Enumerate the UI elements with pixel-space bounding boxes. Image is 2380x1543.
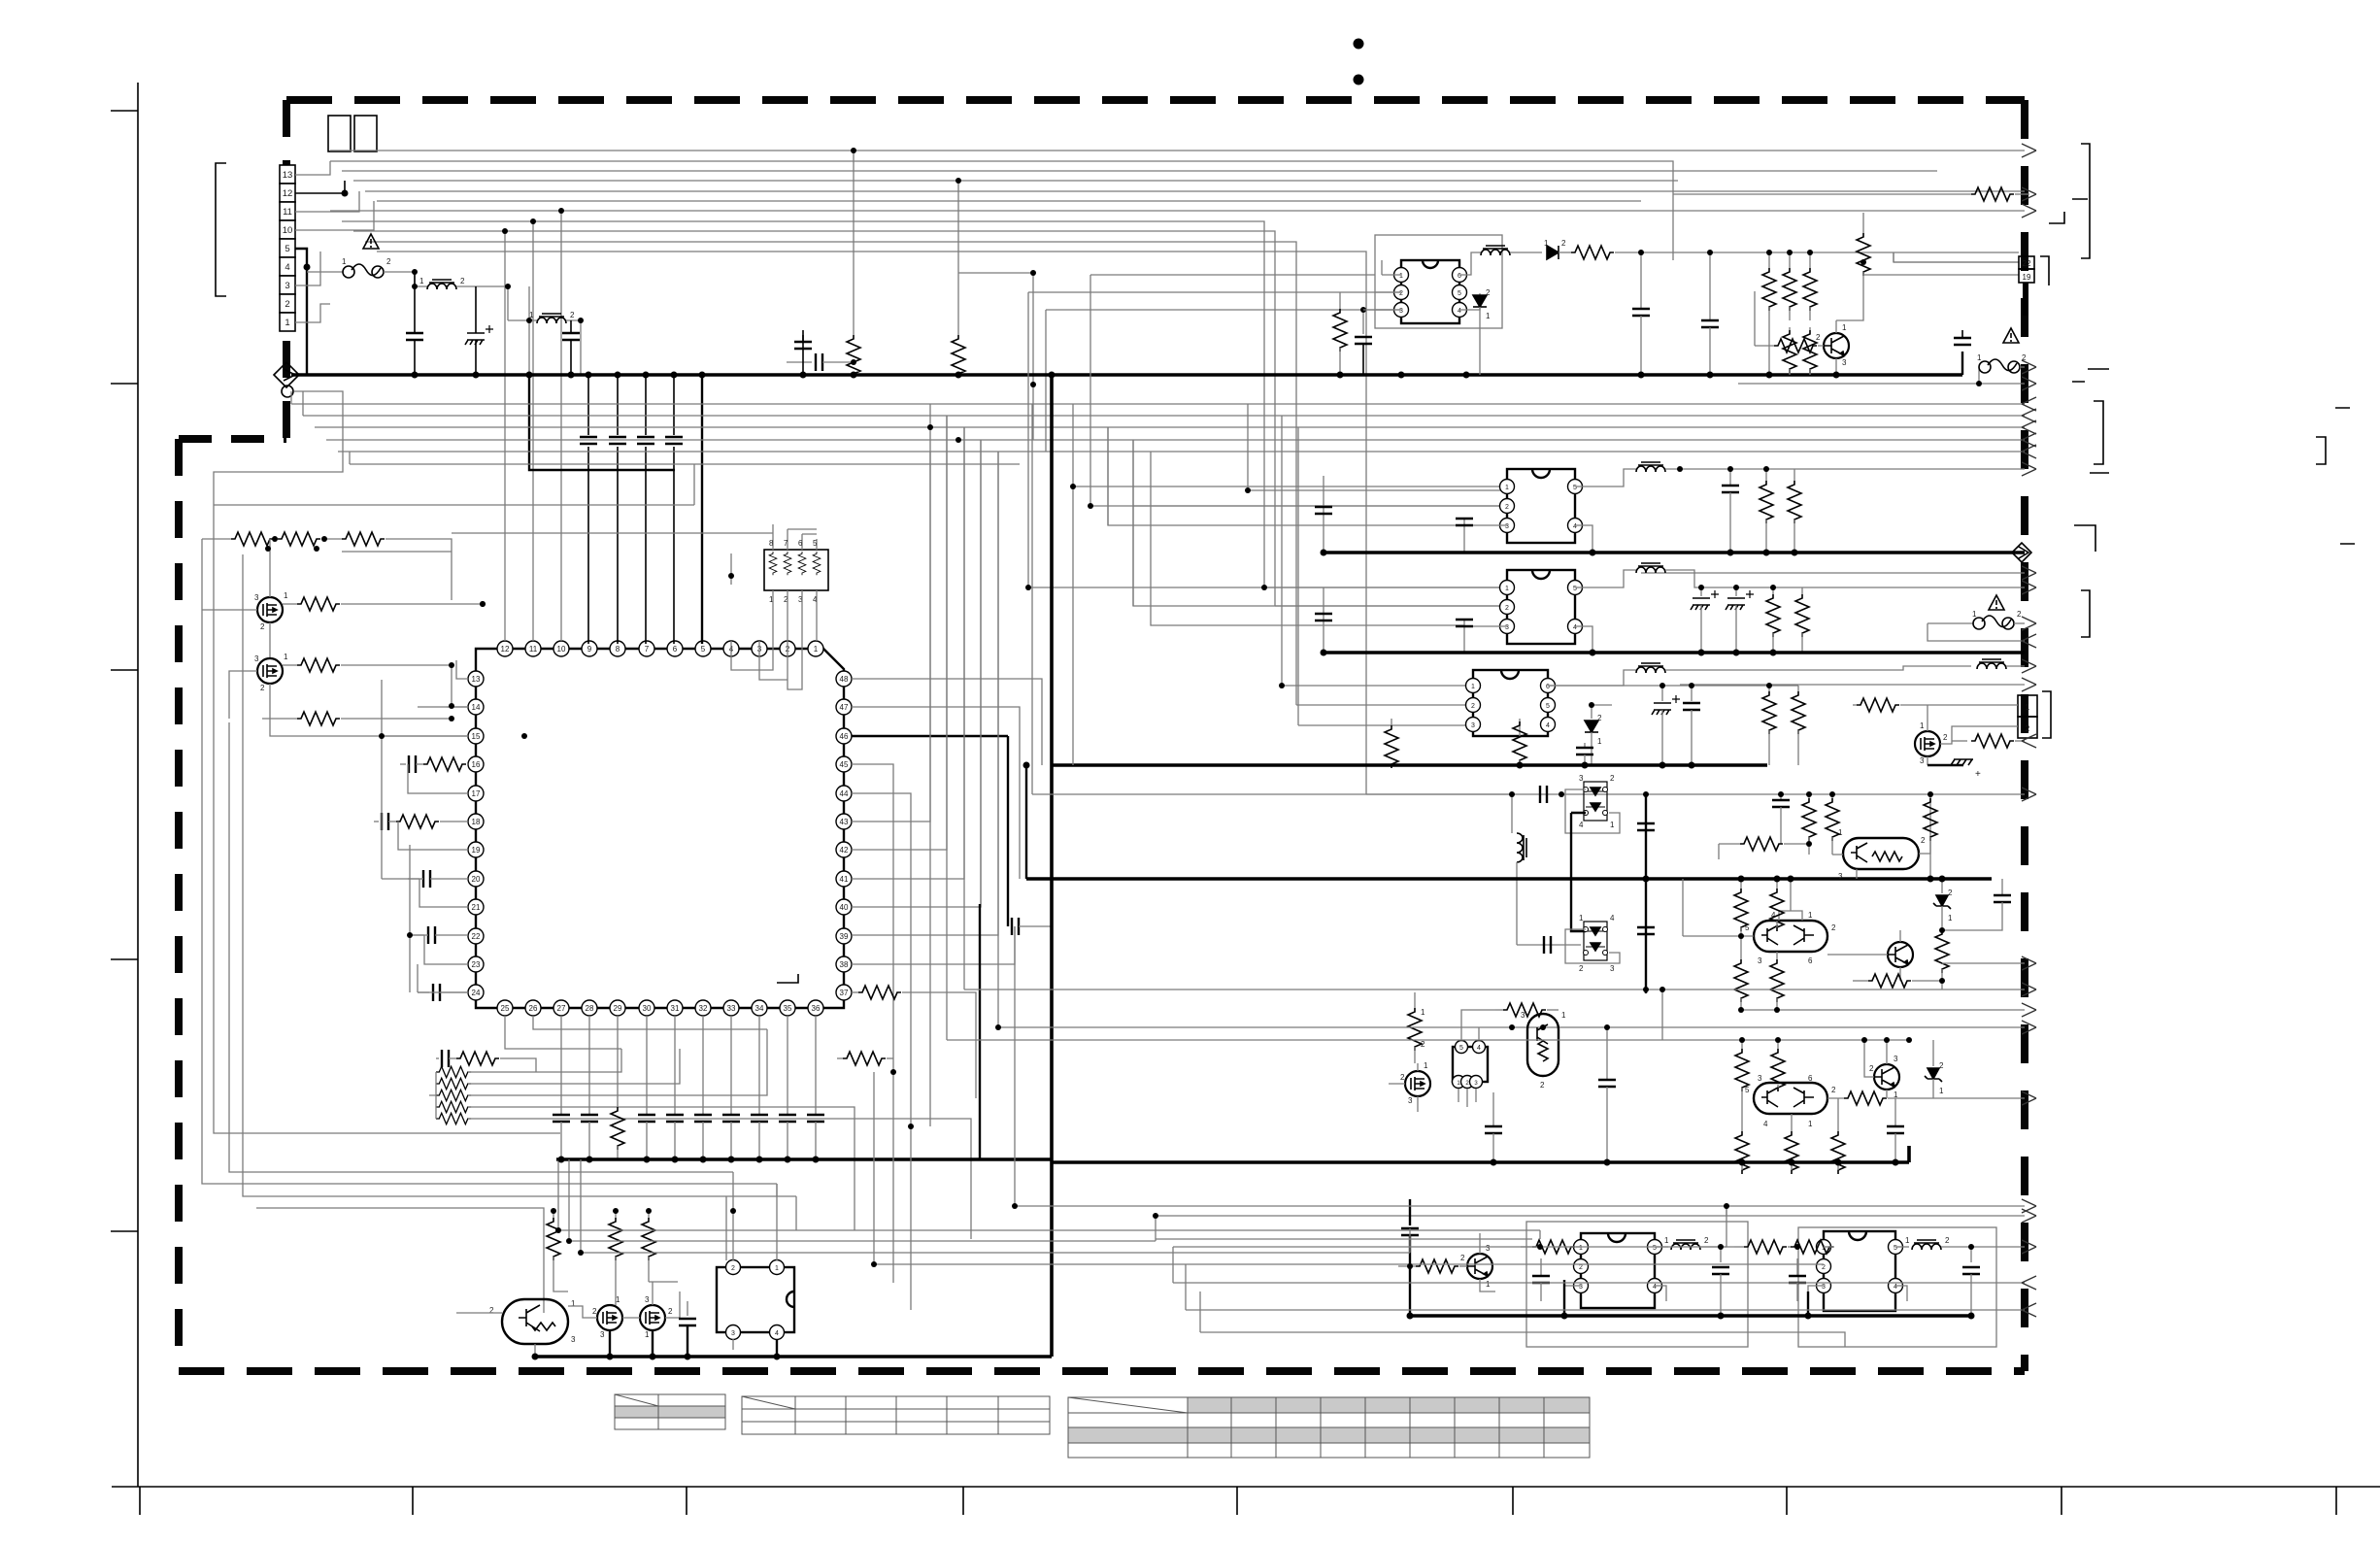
svg-text:2: 2 [1399, 290, 1403, 297]
svg-text:2: 2 [731, 1265, 735, 1272]
transistor Q308 [1467, 1254, 1492, 1279]
svg-text:1: 1 [1948, 914, 1953, 922]
wire y973 [1517, 944, 1581, 946]
connector CN19 [2019, 256, 2034, 269]
svg-text:2: 2 [2017, 610, 2022, 619]
capacitor C301 [1540, 786, 1547, 803]
bus band2 [1324, 651, 2025, 654]
svg-text:4: 4 [285, 262, 289, 273]
svg-text:1: 1 [1920, 721, 1925, 730]
resistor R104 [1789, 252, 1791, 268]
thick drop x1009 [979, 904, 981, 1159]
thick jog x545 [529, 375, 675, 470]
svg-text:47: 47 [840, 703, 849, 712]
diode D102 [1459, 293, 1480, 310]
svg-text:2: 2 [1579, 1264, 1583, 1271]
tick marks right top [2049, 199, 2088, 223]
corner mark inside U1 [777, 974, 798, 983]
pill Q302 [1754, 921, 1827, 952]
resistor R109 [1774, 339, 1817, 352]
wire columns center [214, 391, 2025, 505]
svg-text:46: 46 [840, 732, 849, 741]
resistor R312 [1495, 1009, 1503, 1011]
mosfet Q6 [597, 1305, 622, 1330]
arrow out y200 [2022, 187, 2036, 201]
resistor R311 [1414, 992, 1416, 1008]
wire feeder x540 [382, 680, 468, 879]
IC202 [1500, 570, 1583, 644]
capacitor C311 [1606, 1027, 1608, 1080]
resistor R32 [617, 1016, 619, 1107]
wire drops to U1 pins 12 11 10 [505, 211, 561, 641]
svg-text:2: 2 [460, 277, 465, 285]
mosfet Q1 [257, 597, 283, 622]
svg-text:7: 7 [784, 539, 788, 548]
svg-text:3: 3 [1610, 964, 1615, 973]
svg-text:22: 22 [2023, 259, 2031, 268]
mosfet Q2 [257, 658, 283, 684]
resistor R201 [1765, 469, 1767, 481]
transformer T201 [1575, 469, 1636, 486]
resistor ladder R31 [436, 1066, 471, 1124]
thin box U3 [1526, 1222, 1748, 1347]
wire y1207 to U5 [732, 1172, 734, 1211]
IC U3 [1574, 1233, 1662, 1308]
arrow out y217 [2022, 204, 2036, 218]
resistor chain RA [202, 538, 231, 540]
svg-text:1: 1 [1664, 1236, 1669, 1245]
bead L1 [415, 285, 427, 287]
svg-text:4: 4 [1894, 1284, 1897, 1291]
svg-text:2: 2 [1822, 1264, 1826, 1271]
thin loop D301 [1565, 789, 1620, 833]
wire y1242 [1726, 1206, 1727, 1216]
node ring [282, 386, 293, 397]
svg-text:3: 3 [1894, 1055, 1898, 1063]
wire pins 25 26 drops [505, 1016, 767, 1049]
svg-text:4: 4 [1458, 308, 1461, 315]
wire y1321 [1173, 1282, 2025, 1284]
arrows in bundle mid [2022, 397, 2036, 411]
svg-text:1: 1 [1579, 914, 1584, 922]
resistor R102 [1339, 292, 1341, 309]
dashed board outline left upper [283, 100, 290, 439]
diamond node [274, 362, 299, 387]
wire bundle top [330, 151, 2025, 794]
svg-text:3: 3 [1758, 956, 1762, 965]
svg-text:2: 2 [1704, 1236, 1709, 1245]
wire Q1 [202, 539, 270, 658]
resistor R307 [1740, 879, 1742, 889]
svg-text:1: 1 [342, 257, 347, 266]
resistor R322 [1791, 1240, 1833, 1254]
dashed board outline left lower [175, 439, 183, 1371]
transformer T101 [1459, 252, 1481, 275]
wire riser x1064 [958, 273, 1033, 440]
capacitor C101 [1640, 252, 1642, 309]
capacitor C32 [588, 1016, 590, 1115]
wire riser x879 [853, 151, 855, 335]
resistor R33 [837, 1057, 843, 1059]
svg-text:5: 5 [1459, 1045, 1463, 1052]
wire Q203 [1927, 705, 2018, 765]
capacitor C18 pin22 [413, 934, 424, 936]
resistor R320 [1521, 1246, 1532, 1248]
wire Q2 drain [270, 684, 468, 736]
wire Q5 [456, 1306, 597, 1357]
capacitor C30 + resistor R30 [436, 1057, 439, 1059]
RN1 drops to pins 4 3 2 1 [731, 590, 817, 689]
wire pin11 [295, 191, 359, 212]
svg-text:3: 3 [1842, 358, 1847, 367]
svg-text:1: 1 [1905, 1236, 1910, 1245]
svg-text:3: 3 [285, 281, 289, 291]
svg-text:2: 2 [1816, 333, 1821, 342]
svg-text:33: 33 [727, 1004, 736, 1013]
thin drop x545 [528, 286, 530, 375]
bus bottom assembly [537, 1355, 1052, 1359]
fuse F201 [1927, 622, 1973, 624]
svg-text:3: 3 [254, 593, 259, 602]
capacitor C34 [674, 1016, 676, 1115]
svg-text:4: 4 [1573, 624, 1577, 631]
resistor R305 [1935, 930, 1949, 973]
fuse F1 [307, 271, 343, 273]
svg-text:6: 6 [798, 539, 803, 548]
svg-text:3: 3 [1486, 1244, 1491, 1253]
svg-text:1: 1 [616, 1295, 620, 1304]
svg-text:1: 1 [2026, 703, 2030, 712]
svg-text:1: 1 [1838, 828, 1843, 837]
capacitor C35 [702, 1016, 704, 1115]
wire out y395 [1738, 383, 2025, 385]
registration dot lower [1354, 75, 1364, 85]
svg-text:5: 5 [813, 539, 818, 548]
wire y1252 [1156, 1215, 2025, 1217]
capacitor C312 [1894, 1098, 1896, 1126]
capacitor C302 [1637, 823, 1655, 830]
capacitor C3 [570, 320, 572, 375]
capacitor C19 pin24 [418, 991, 429, 993]
resistor R43 [648, 1211, 650, 1218]
svg-text:3: 3 [571, 1335, 576, 1344]
wire Q307 [1864, 1040, 1887, 1098]
svg-text:2: 2 [1460, 1254, 1465, 1262]
svg-text:4: 4 [1579, 821, 1584, 829]
diamond bus1 end [2012, 543, 2031, 562]
wire y1349 [1186, 1309, 2025, 1311]
svg-text:4: 4 [1573, 523, 1577, 530]
warning triangle band2 [1989, 595, 2004, 610]
wire out y590 [1641, 572, 2025, 574]
mosfet Q7 [640, 1305, 665, 1330]
dashed board outline right [2021, 100, 2028, 1371]
svg-text:1: 1 [1486, 312, 1491, 320]
svg-text:2: 2 [1921, 836, 1926, 845]
wire Q301 [1832, 794, 1930, 879]
wire band3 top [1548, 685, 1798, 687]
wire U5 pins [733, 1184, 777, 1350]
wire pin5 thick drop [295, 249, 307, 375]
svg-text:4: 4 [1610, 914, 1615, 922]
svg-text:32: 32 [699, 1004, 708, 1013]
thin loop D302 [1565, 929, 1620, 963]
capacitor C204 [1464, 620, 1507, 626]
bead L2 [508, 319, 537, 321]
svg-text:6: 6 [1546, 684, 1550, 690]
capacitor C205 electrolytic [1700, 587, 1702, 596]
wire U3 pin3 [1564, 1286, 1581, 1316]
wire U4 pin4 [1895, 1286, 1907, 1301]
svg-text:1: 1 [285, 318, 289, 328]
thick spine x1083 [1050, 375, 1054, 1357]
svg-text:2: 2 [1869, 1064, 1874, 1073]
svg-text:4: 4 [1477, 1045, 1481, 1052]
main bus GND1 [291, 373, 1962, 377]
bus band4 [1026, 877, 1992, 881]
resistor R103 [1768, 252, 1770, 268]
wire gate net [342, 551, 452, 553]
IC201 [1500, 469, 1583, 543]
svg-text:2: 2 [1486, 288, 1491, 297]
svg-text:5: 5 [1653, 1245, 1657, 1252]
IC U5 [717, 1260, 794, 1340]
resistor R17 pin37 [852, 991, 858, 993]
svg-text:5: 5 [1573, 485, 1577, 491]
svg-text:9: 9 [587, 645, 592, 654]
resistor R90 [1942, 193, 1971, 195]
capacitor C5 [587, 375, 589, 644]
svg-text:39: 39 [840, 932, 849, 941]
capacitor C206 electrolytic [1735, 587, 1737, 596]
capacitor C310 [1492, 1092, 1494, 1126]
resistor R301 [1808, 794, 1810, 798]
capacitor C39 [815, 1016, 817, 1115]
warning triangle top right [2003, 328, 2019, 343]
svg-text:10: 10 [283, 225, 293, 236]
svg-text:2: 2 [592, 1307, 597, 1316]
svg-text:13: 13 [283, 170, 293, 181]
svg-text:2: 2 [1597, 714, 1602, 722]
svg-text:1: 1 [284, 653, 288, 661]
bus band4 riser [1025, 765, 1027, 879]
svg-text:15: 15 [472, 732, 481, 741]
IC U4 [1817, 1231, 1903, 1311]
capacitor C305 [1780, 794, 1782, 800]
vertical cap rail [1645, 794, 1647, 993]
svg-text:2: 2 [1831, 1086, 1836, 1094]
svg-text:1: 1 [419, 277, 424, 285]
svg-text:42: 42 [840, 846, 849, 855]
svg-text:37: 37 [840, 989, 849, 997]
bracket far right mid [2316, 408, 2355, 544]
svg-text:3: 3 [1471, 722, 1475, 729]
svg-text:1: 1 [1399, 273, 1403, 280]
wire y1071 [1662, 990, 1909, 1040]
resistor R6 [952, 335, 965, 378]
svg-text:23: 23 [472, 960, 481, 969]
svg-text:1: 1 [1579, 1245, 1583, 1252]
U1 pins bottom [497, 1000, 823, 1016]
svg-text:1: 1 [1972, 610, 1977, 619]
svg-text:2: 2 [260, 684, 265, 692]
transistor Q101 [1824, 333, 1849, 358]
resistor R107 [1789, 327, 1791, 330]
thick drop to pin5 [701, 375, 703, 644]
capacitor C1 [414, 272, 416, 375]
capacitor C15 + resistor R15 pin16 [400, 763, 406, 765]
svg-text:36: 36 [812, 1004, 821, 1013]
bracket right band2 [2081, 590, 2090, 637]
bracket right mid arrows [2094, 401, 2103, 464]
wire pin17 pin19 pin21 pin23 stubs [398, 764, 468, 992]
svg-text:2: 2 [1561, 239, 1566, 248]
arrow out y155 [2022, 144, 2036, 157]
svg-text:40: 40 [840, 903, 849, 912]
svg-text:3: 3 [1505, 523, 1509, 530]
bus band5 [1052, 1146, 1909, 1162]
resistor network RN1 [452, 524, 828, 689]
transformer T203 [1548, 670, 1636, 686]
wire Q305 [1389, 1063, 1418, 1112]
U1 pins right [836, 671, 852, 1000]
svg-text:2: 2 [1948, 889, 1953, 897]
connector CN1 bracket [216, 163, 226, 296]
svg-text:12: 12 [283, 188, 293, 199]
svg-text:2: 2 [1945, 1236, 1950, 1245]
wire out y705 [1680, 684, 2025, 686]
resistor R210 [1952, 740, 1967, 742]
resistor R205 [1519, 719, 1521, 736]
svg-text:28: 28 [586, 1004, 594, 1013]
wire y1019 [1646, 989, 2025, 990]
svg-text:3: 3 [1399, 308, 1403, 315]
resistor R41 [553, 1211, 554, 1218]
svg-text:2: 2 [1579, 964, 1584, 973]
svg-text:6: 6 [1808, 1074, 1813, 1083]
wire pin1 [295, 304, 330, 322]
capacitor C33 [646, 1016, 648, 1115]
ground hatch G3 [1927, 764, 1963, 766]
capacitor C313 thick [1409, 1199, 1411, 1225]
svg-text:31: 31 [671, 1004, 680, 1013]
capacitor C16 + resistor R16 pin18 [374, 821, 379, 822]
wire y269 in [1894, 252, 2019, 262]
thin box U4 [1798, 1227, 1996, 1347]
svg-text:2: 2 [1939, 1061, 1944, 1070]
svg-text:30: 30 [643, 1004, 652, 1013]
IC U2 4pin [1453, 1041, 1489, 1089]
wire feeds to band ICs [1028, 404, 1512, 794]
resistor R319 [1398, 1265, 1416, 1267]
capacitor C209 electrolytic [1661, 686, 1663, 701]
svg-text:3: 3 [254, 654, 259, 663]
wire y1040 [1741, 1009, 2025, 1011]
capacitor C103 [1362, 310, 1364, 334]
svg-text:1: 1 [1486, 1280, 1491, 1289]
wire y818 [1512, 793, 2025, 795]
pill Q304 vertical [1527, 1014, 1559, 1076]
wire y1372 [1200, 1332, 1845, 1347]
svg-text:34: 34 [755, 1004, 764, 1013]
svg-text:44: 44 [840, 789, 849, 798]
capacitor C10 [787, 361, 812, 363]
svg-text:2: 2 [1540, 1081, 1545, 1090]
resistor R317 [1791, 1114, 1793, 1131]
svg-text:35: 35 [784, 1004, 792, 1013]
verticals center bottom [874, 275, 2025, 1310]
fuse F2 [1978, 367, 1980, 384]
riser cap C207 [1323, 587, 1324, 653]
svg-text:38: 38 [840, 960, 849, 969]
capacitor C306 [2001, 879, 2003, 895]
bus band3 [1052, 763, 1767, 767]
svg-text:1: 1 [1421, 1008, 1425, 1017]
svg-text:1: 1 [284, 591, 288, 600]
svg-text:29: 29 [614, 1004, 622, 1013]
pill Q301 [1843, 838, 1919, 869]
svg-text:3: 3 [1758, 1074, 1762, 1083]
bus under U1 [556, 1157, 1052, 1161]
svg-text:2: 2 [386, 257, 391, 266]
wire U3 pin4 [1655, 1286, 1666, 1301]
resistor R203 [1772, 587, 1774, 594]
bead L301 [1655, 1246, 1668, 1248]
capacitor C36 [730, 1016, 732, 1115]
svg-text:2: 2 [1831, 923, 1836, 932]
wire Q303 [1827, 930, 1900, 981]
zener D303 [1941, 879, 1943, 893]
resistor R209 [1853, 704, 1857, 706]
svg-text:4: 4 [1546, 722, 1550, 729]
capacitor C210 [1691, 686, 1693, 701]
wire pin4 down band2 [1575, 626, 1592, 653]
svg-text:2: 2 [2026, 724, 2030, 733]
dashed board outline top [286, 96, 2025, 104]
svg-text:4: 4 [775, 1330, 779, 1337]
svg-text:2: 2 [570, 311, 575, 319]
svg-text:27: 27 [557, 1004, 566, 1013]
feeds band6 [1156, 1216, 1824, 1332]
capacitor C31 [560, 1016, 562, 1115]
thick link D301-D302 [1571, 813, 1586, 931]
thin box around IC101 [1375, 235, 1502, 328]
svg-text:1: 1 [1561, 1011, 1566, 1020]
svg-text:20: 20 [472, 875, 481, 884]
svg-text:5: 5 [1745, 1086, 1750, 1094]
resistor R302 [1831, 794, 1833, 798]
wire Q6 Q7 [610, 1330, 653, 1357]
capacitor C17 pin20 [408, 878, 419, 880]
capacitor C41 [687, 1301, 688, 1316]
resistor R106 [1862, 213, 1864, 233]
svg-text:1: 1 [645, 1330, 650, 1339]
wire riser x820 [795, 1196, 797, 1230]
svg-text:22: 22 [472, 932, 481, 941]
resistor R105 [1809, 252, 1811, 268]
resistor R310 [1776, 952, 1778, 959]
svg-text:2: 2 [2022, 353, 2027, 362]
resistor R315 [1827, 1097, 1844, 1099]
wire T201 out [1665, 468, 2025, 470]
capacitor C304 [1544, 936, 1551, 954]
svg-text:2: 2 [1400, 1073, 1405, 1082]
bracket right top [2081, 144, 2090, 258]
wire pin12 [295, 181, 345, 193]
IC U1 main controller [476, 649, 844, 1008]
resistor R208 [1797, 686, 1799, 691]
bracket CN19 right [2040, 256, 2049, 285]
